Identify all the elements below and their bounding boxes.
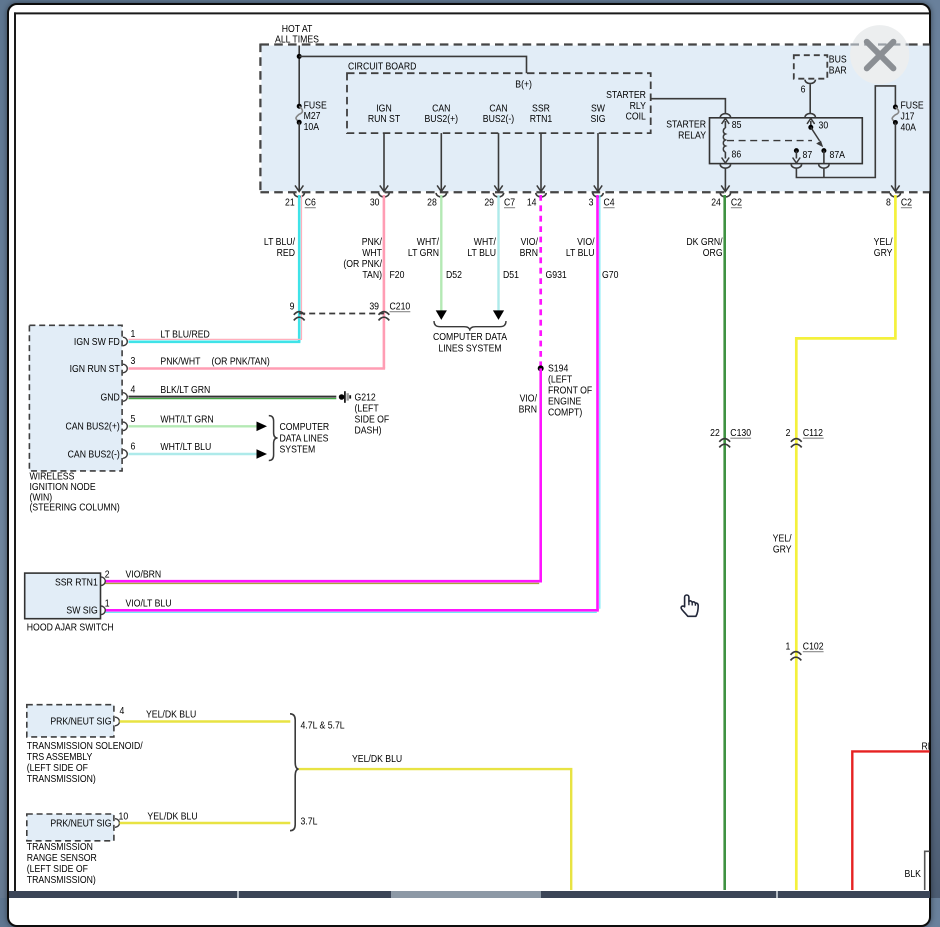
connector C112 xyxy=(791,439,802,442)
svg-text:COMPUTER DATA: COMPUTER DATA xyxy=(433,331,508,342)
svg-text:RELAY: RELAY xyxy=(678,130,707,141)
svg-text:YEL/: YEL/ xyxy=(773,533,792,544)
svg-text:COMPUTER: COMPUTER xyxy=(279,421,329,432)
svg-text:C112: C112 xyxy=(803,427,823,438)
connector pin 28 xyxy=(436,193,446,197)
horizontal scrollbar track xyxy=(9,891,931,898)
svg-text:B(+): B(+) xyxy=(515,79,532,90)
svg-text:87: 87 xyxy=(802,150,812,161)
svg-text:CAN: CAN xyxy=(489,103,507,114)
wire VIO/LT BLU vertical xyxy=(596,195,599,610)
svg-text:BUS2(-): BUS2(-) xyxy=(483,113,514,124)
connector cap at relay pin 30 xyxy=(805,113,815,117)
svg-text:22: 22 xyxy=(710,427,720,438)
svg-text:(WIN): (WIN) xyxy=(30,492,53,503)
wire YEL/GRY from fuse J17 xyxy=(796,195,895,890)
svg-text:TRANSMISSION): TRANSMISSION) xyxy=(27,773,96,784)
transmission range sensor box fill xyxy=(27,814,114,841)
svg-text:DASH): DASH) xyxy=(354,425,381,436)
wire circuit board pin 30 drop xyxy=(383,133,385,191)
svg-text:PRK/NEUT SIG: PRK/NEUT SIG xyxy=(50,716,111,727)
wire LT BLU/RED (cyan) vertical xyxy=(298,195,301,342)
relay switch blade xyxy=(811,127,820,141)
svg-text:ENGINE: ENGINE xyxy=(548,396,581,407)
svg-text:LT BLU: LT BLU xyxy=(467,247,496,258)
svg-text:RED: RED xyxy=(922,741,940,752)
svg-text:IGN RUN ST: IGN RUN ST xyxy=(70,363,120,374)
connector pin 14 xyxy=(536,193,546,197)
svg-text:F20: F20 xyxy=(389,269,404,280)
svg-text:C2: C2 xyxy=(731,197,742,208)
transmission solenoid box fill xyxy=(27,705,114,737)
power distribution box dashed border xyxy=(260,43,930,45)
svg-text:VIO/: VIO/ xyxy=(577,236,595,247)
power distribution box (HOT AT ALL TIMES region) fill xyxy=(261,46,930,192)
svg-text:TRANSMISSION): TRANSMISSION) xyxy=(27,874,96,885)
connector C102 xyxy=(791,652,802,655)
svg-text:WIRELESS: WIRELESS xyxy=(30,471,75,482)
svg-text:G212: G212 xyxy=(354,392,375,403)
svg-text:C7: C7 xyxy=(504,197,515,208)
svg-text:6: 6 xyxy=(801,84,806,95)
brace computer data lines system xyxy=(269,416,278,461)
connector cup under relay pin 86 xyxy=(720,164,730,168)
svg-text:BLK/LT GRN: BLK/LT GRN xyxy=(160,385,210,396)
wire YEL/DK BLU trunk xyxy=(299,769,571,890)
svg-text:IGNITION NODE: IGNITION NODE xyxy=(30,481,96,492)
svg-text:RANGE SENSOR: RANGE SENSOR xyxy=(27,852,97,863)
svg-text:YEL/: YEL/ xyxy=(874,236,893,247)
wire RED at right xyxy=(852,751,930,890)
connector pin 30 xyxy=(379,193,389,197)
svg-text:YEL/DK BLU: YEL/DK BLU xyxy=(146,709,196,720)
wire circuit board pin 14 drop xyxy=(540,133,542,191)
svg-text:ORG: ORG xyxy=(703,247,723,258)
svg-text:BUS: BUS xyxy=(829,54,847,65)
svg-text:CAN: CAN xyxy=(432,103,450,114)
svg-text:LT BLU/RED: LT BLU/RED xyxy=(160,329,210,340)
svg-text:(LEFT: (LEFT xyxy=(354,403,378,414)
svg-text:S194: S194 xyxy=(548,363,568,374)
svg-text:BAR: BAR xyxy=(829,65,847,76)
svg-text:ALL TIMES: ALL TIMES xyxy=(275,34,319,45)
svg-text:FUSE: FUSE xyxy=(304,100,327,111)
svg-text:TRANSMISSION: TRANSMISSION xyxy=(27,841,93,852)
wireless ignition node box fill xyxy=(29,325,122,471)
svg-text:WHT/LT GRN: WHT/LT GRN xyxy=(160,414,213,425)
svg-text:86: 86 xyxy=(731,149,741,160)
mouse cursor (pointing hand) xyxy=(677,592,703,620)
svg-text:VIO/: VIO/ xyxy=(521,236,539,247)
svg-text:3: 3 xyxy=(589,197,594,208)
svg-text:4: 4 xyxy=(131,384,136,395)
svg-text:COMPT): COMPT) xyxy=(548,407,582,418)
svg-text:SW: SW xyxy=(591,103,605,114)
wire PNK/WHT vertical xyxy=(383,195,386,369)
connector pin 3 C4 xyxy=(593,193,603,197)
wire WHT/LT BLU to data lines xyxy=(129,453,258,455)
relay pin 30 contact xyxy=(807,118,815,124)
svg-text:IGN: IGN xyxy=(376,103,391,114)
svg-text:VIO/: VIO/ xyxy=(520,393,538,404)
connector C210 bump pin 9 xyxy=(294,312,305,315)
svg-text:87A: 87A xyxy=(830,150,846,161)
svg-text:J17: J17 xyxy=(901,111,915,122)
svg-text:9: 9 xyxy=(290,301,295,312)
svg-text:1: 1 xyxy=(105,598,110,609)
svg-text:PNK/: PNK/ xyxy=(362,236,383,247)
relay internal dashed link xyxy=(727,140,812,142)
svg-text:HOOD AJAR SWITCH: HOOD AJAR SWITCH xyxy=(27,622,114,633)
wire bus bar to relay 30 xyxy=(809,84,811,113)
relay pin 87 xyxy=(794,148,799,153)
svg-text:1: 1 xyxy=(785,641,790,652)
svg-text:WHT/: WHT/ xyxy=(417,236,440,247)
wire fuse J17 to pin 8 xyxy=(894,123,896,191)
bus bar pin 6 cup xyxy=(805,80,815,84)
wire DK GRN/ORG vertical xyxy=(723,195,726,890)
wire circuit board pin 3 drop xyxy=(597,133,599,191)
connector pin 24 C2 xyxy=(720,193,730,197)
node junction dot xyxy=(297,54,302,59)
svg-text:CAN BUS2(-): CAN BUS2(-) xyxy=(68,449,120,460)
svg-text:10A: 10A xyxy=(304,121,320,132)
svg-text:M27: M27 xyxy=(304,110,321,121)
arrow WHT/LT BLU to data lines xyxy=(493,310,504,320)
svg-text:C210: C210 xyxy=(389,301,410,312)
bus bar dashed box xyxy=(794,55,828,78)
connector cup under relay pin 87 xyxy=(791,164,801,168)
svg-text:85: 85 xyxy=(732,120,742,131)
wire circuit board pin 29 drop xyxy=(498,133,500,191)
wire hot feed vertical from top xyxy=(298,46,300,106)
transmission solenoid dashed box xyxy=(27,705,114,737)
svg-text:YEL/DK BLU: YEL/DK BLU xyxy=(147,811,197,822)
svg-text:DATA LINES: DATA LINES xyxy=(279,433,328,444)
svg-text:28: 28 xyxy=(427,197,437,208)
partial component box at bottom right xyxy=(925,851,930,890)
svg-text:LT BLU/: LT BLU/ xyxy=(264,236,295,247)
wire LT BLU/RED horizontal to WIN pin 1 xyxy=(129,340,301,343)
svg-text:24: 24 xyxy=(711,197,721,208)
relay coil winding xyxy=(723,128,725,152)
transmission range sensor dashed box xyxy=(27,814,114,841)
wire BLK/LT GRN to ground G212 xyxy=(129,396,337,398)
wire WHT/LT GRN vertical xyxy=(440,195,442,311)
close button xyxy=(850,25,909,84)
scrollbar separator left xyxy=(237,891,239,898)
svg-text:SIG: SIG xyxy=(591,113,606,124)
wire VIO/LT BLU horizontal to hood switch xyxy=(105,609,599,612)
svg-text:C6: C6 xyxy=(305,197,316,208)
svg-text:CIRCUIT BOARD: CIRCUIT BOARD xyxy=(348,61,417,72)
svg-text:COIL: COIL xyxy=(626,111,646,122)
svg-text:SSR: SSR xyxy=(532,103,550,114)
splice S194 xyxy=(538,365,544,371)
fuse J17 40A xyxy=(893,105,898,110)
wire VIO/BRN solid below S194 xyxy=(539,368,542,581)
starter relay box K1 xyxy=(710,118,863,164)
svg-text:(LEFT: (LEFT xyxy=(548,374,572,385)
svg-text:14: 14 xyxy=(527,197,537,208)
svg-text:WHT/: WHT/ xyxy=(474,236,497,247)
svg-text:BRN: BRN xyxy=(519,404,537,415)
svg-text:8: 8 xyxy=(886,197,891,208)
svg-text:CAN BUS2(+): CAN BUS2(+) xyxy=(65,421,119,432)
svg-text:TRS ASSEMBLY: TRS ASSEMBLY xyxy=(27,751,93,762)
fuse M27 10A xyxy=(297,104,302,109)
svg-text:39: 39 xyxy=(369,301,379,312)
svg-text:FRONT OF: FRONT OF xyxy=(548,385,593,396)
svg-text:29: 29 xyxy=(484,197,494,208)
svg-text:BUS2(+): BUS2(+) xyxy=(425,113,459,124)
connector cap at relay coil pin xyxy=(720,114,730,118)
svg-text:RUN ST: RUN ST xyxy=(368,113,401,124)
svg-text:DK GRN/: DK GRN/ xyxy=(686,236,723,247)
svg-text:30: 30 xyxy=(818,120,828,131)
svg-text:TAN): TAN) xyxy=(362,269,382,280)
wire relay 86 to pin 24 xyxy=(724,168,726,191)
circuit board dashed box U1 xyxy=(347,73,651,133)
relay coil pin 85 xyxy=(722,118,730,124)
relay pin 87A xyxy=(821,148,826,153)
svg-text:WHT: WHT xyxy=(362,247,382,258)
wire YEL/DK BLU lower xyxy=(120,822,291,824)
wire relay 87A stub xyxy=(823,169,825,178)
connector C210 dashed link xyxy=(299,313,384,315)
connector pin 21 C6 xyxy=(294,193,304,197)
svg-text:SSR RTN1: SSR RTN1 xyxy=(55,577,98,588)
brace joining transmission wires xyxy=(290,714,299,831)
svg-text:(OR PNK/: (OR PNK/ xyxy=(343,258,382,269)
svg-text:LT BLU: LT BLU xyxy=(566,247,595,258)
wire circuit board pin 28 drop xyxy=(440,133,442,191)
svg-text:C2: C2 xyxy=(901,197,912,208)
svg-text:(OR PNK/TAN): (OR PNK/TAN) xyxy=(211,356,269,367)
connector pin 8 C2 xyxy=(890,193,900,197)
wire starter rly coil to relay xyxy=(651,99,726,114)
svg-text:BRN: BRN xyxy=(520,247,538,258)
svg-text:SIDE OF: SIDE OF xyxy=(354,414,389,425)
svg-text:FUSE: FUSE xyxy=(901,100,924,111)
connector pin 29 C7 xyxy=(493,193,503,197)
svg-text:IGN SW FD: IGN SW FD xyxy=(74,336,120,347)
svg-text:HOT AT: HOT AT xyxy=(282,23,313,34)
svg-text:30: 30 xyxy=(370,197,380,208)
svg-text:SW SIG: SW SIG xyxy=(66,605,97,616)
connector cup under relay pin 87A xyxy=(819,164,829,168)
wire branch to B(+) xyxy=(299,56,526,73)
svg-text:GND: GND xyxy=(100,392,120,403)
connector C130 xyxy=(719,439,730,442)
svg-text:LINES SYSTEM: LINES SYSTEM xyxy=(438,343,501,354)
wire WHT/LT GRN to data lines xyxy=(129,425,258,427)
wire YEL/DK BLU upper xyxy=(120,720,291,722)
svg-text:G70: G70 xyxy=(602,269,618,280)
connector C210 bump pin 39 xyxy=(379,312,390,315)
arrow WHT/LT GRN to data lines xyxy=(436,310,447,320)
svg-text:40A: 40A xyxy=(901,122,917,133)
svg-text:RLY: RLY xyxy=(630,100,647,111)
svg-text:(LEFT SIDE OF: (LEFT SIDE OF xyxy=(27,762,88,773)
svg-text:G931: G931 xyxy=(545,269,566,280)
wire WHT/LT BLU vertical xyxy=(497,195,499,311)
hood ajar switch box S1 xyxy=(25,573,101,619)
svg-text:3: 3 xyxy=(131,355,136,366)
svg-text:STARTER: STARTER xyxy=(666,119,706,130)
wire fuse to pin 21 xyxy=(298,122,300,191)
svg-text:(STEERING COLUMN): (STEERING COLUMN) xyxy=(30,502,120,513)
svg-text:RTN1: RTN1 xyxy=(530,113,553,124)
svg-text:PNK/WHT: PNK/WHT xyxy=(160,356,200,367)
svg-text:LT GRN: LT GRN xyxy=(408,247,439,258)
svg-text:1: 1 xyxy=(131,328,136,339)
wire PNK/WHT horizontal to WIN pin 3 xyxy=(129,367,386,370)
svg-text:TRANSMISSION SOLENOID/: TRANSMISSION SOLENOID/ xyxy=(27,740,143,751)
underbrace computer data lines xyxy=(434,321,506,331)
svg-text:STARTER: STARTER xyxy=(606,89,646,100)
svg-text:VIO/BRN: VIO/BRN xyxy=(125,569,161,580)
svg-text:D51: D51 xyxy=(503,269,519,280)
wireless ignition node dashed box xyxy=(29,325,122,471)
svg-text:C102: C102 xyxy=(803,641,824,652)
svg-text:GRY: GRY xyxy=(773,544,792,555)
ground G212 xyxy=(339,394,345,400)
scrollbar separator right xyxy=(776,891,778,898)
svg-text:4.7L & 5.7L: 4.7L & 5.7L xyxy=(300,720,344,731)
diagram frame top line xyxy=(14,12,930,14)
svg-text:BLK: BLK xyxy=(905,868,922,879)
horizontal scrollbar thumb xyxy=(391,891,541,898)
svg-text:(LEFT SIDE OF: (LEFT SIDE OF xyxy=(27,863,88,874)
svg-text:2: 2 xyxy=(105,569,110,580)
svg-text:RED: RED xyxy=(277,247,296,258)
svg-text:5: 5 xyxy=(131,413,136,424)
wire VIO/BRN dashed vertical xyxy=(539,195,542,368)
svg-text:6: 6 xyxy=(131,441,136,452)
diagram frame left line xyxy=(14,12,16,898)
wire VIO/BRN horizontal to hood switch xyxy=(105,580,542,583)
svg-text:WHT/LT BLU: WHT/LT BLU xyxy=(160,442,211,453)
svg-text:C130: C130 xyxy=(730,427,751,438)
svg-text:2: 2 xyxy=(786,427,791,438)
relay coil pin 86 xyxy=(724,152,726,159)
svg-text:YEL/DK BLU: YEL/DK BLU xyxy=(352,753,402,764)
svg-text:21: 21 xyxy=(285,197,295,208)
svg-text:SYSTEM: SYSTEM xyxy=(279,444,315,455)
wire relay 87 to fuse J17 xyxy=(796,86,895,178)
svg-text:VIO/LT BLU: VIO/LT BLU xyxy=(125,598,171,609)
svg-text:C4: C4 xyxy=(604,197,615,208)
svg-text:3.7L: 3.7L xyxy=(300,816,317,827)
svg-text:D52: D52 xyxy=(446,269,462,280)
svg-text:4: 4 xyxy=(120,705,125,716)
svg-text:PRK/NEUT SIG: PRK/NEUT SIG xyxy=(50,818,111,829)
svg-text:GRY: GRY xyxy=(874,247,893,258)
svg-text:10: 10 xyxy=(119,811,129,822)
